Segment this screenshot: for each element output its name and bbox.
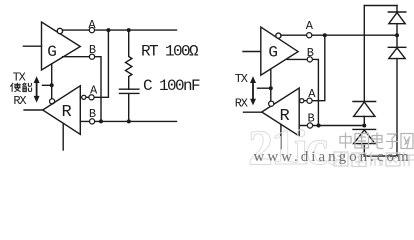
svg-text:B: B (89, 107, 96, 121)
wire: D4 anode to bottom rail (363, 144, 365, 156)
receiver R1 input bubble (82, 95, 86, 99)
watermark CJK row2 ghost (334, 152, 414, 167)
wire: D2 anode to bottom rail (396, 59, 398, 156)
svg-text:TX: TX (13, 70, 26, 84)
terminal circle B receiver 2 (307, 123, 312, 128)
wire: A line right circuit (281, 34, 397, 36)
node junction enable (50, 83, 54, 87)
node junction on A bus (106, 28, 110, 32)
wire: R2 bottom stub (280, 124, 282, 148)
svg-text:www.diangon.com: www.diangon.com (254, 149, 412, 165)
wire: A bus top line (63, 29, 177, 31)
svg-text:B: B (307, 46, 314, 60)
svg-text:C 100nF: C 100nF (143, 77, 200, 95)
diode D2 (388, 46, 406, 48)
op-amp G2 driver triangle (261, 27, 298, 75)
label 使能 (enable) drawn as paths (10, 83, 31, 92)
wire: D3 anode to B node (363, 116, 365, 125)
node junction B bus / driver B 2 (317, 124, 321, 128)
wire: R1 bottom stub (62, 123, 64, 150)
inversion bubble on G2 top edge (276, 33, 281, 38)
TX/RX direction double arrow left (34, 76, 40, 102)
receiver R1 enable bubble (50, 99, 55, 104)
capacitor C plates (120, 89, 139, 121)
node junction B bus / driver B (99, 119, 103, 123)
terminal circle A driver 2 (307, 33, 312, 38)
svg-text:RX: RX (13, 94, 26, 108)
receiver R2 input bubble (300, 99, 304, 103)
terminal circle B driver 2 (307, 57, 312, 62)
wire: left column vertical (363, 6, 365, 102)
terminal circle A receiver 2 (307, 98, 312, 103)
wire: G driver input (TXD) (23, 45, 41, 47)
wire: B bus bottom line (80, 120, 176, 122)
wire: G driver input (243, 51, 261, 53)
terminal circle A (receiver input A) (89, 95, 94, 100)
wire: vertical A feed down to receiver input (80, 30, 108, 97)
terminal circle A (driver output A) (89, 28, 94, 33)
node junction RT top (127, 28, 131, 32)
op-amp R1 receiver triangle (43, 86, 81, 135)
watermark CJK row1 中国电子网 (340, 133, 413, 149)
svg-text:RT 100Ω: RT 100Ω (141, 43, 199, 61)
TX/RX direction double arrow right (250, 76, 256, 105)
wire: enable connector 2 (258, 87, 271, 89)
wire: G1 enable pin down (51, 64, 53, 99)
node junction enable 2 (269, 86, 273, 90)
diode D3 (cathode bar + triangle) (353, 101, 376, 103)
svg-text:G: G (268, 44, 278, 62)
op-amp G1 driver triangle (42, 22, 81, 70)
svg-text:G: G (47, 43, 57, 61)
terminal circle B (receiver input B) (90, 119, 95, 124)
inversion bubble on G1 top edge (57, 28, 62, 33)
wire: bottom rail (364, 155, 397, 157)
resistor RT zigzag (126, 30, 132, 89)
op-amp R2 receiver triangle (262, 88, 300, 136)
wire: right column top (396, 6, 398, 13)
svg-text:B: B (89, 43, 96, 57)
wire: B output of G2 (287, 59, 318, 125)
diode D1 (388, 11, 406, 13)
wire: A feed down to receiver 2 (299, 35, 325, 101)
node junction A / diode column (395, 33, 399, 37)
svg-text:TX: TX (235, 72, 248, 86)
wire: R1 output (RXD) (24, 109, 43, 111)
node junction A line (323, 33, 327, 37)
wire: enable connector (43, 84, 52, 86)
wire: top supply rail (364, 5, 397, 7)
terminal circle B (driver output B) (89, 54, 94, 59)
svg-text:R: R (62, 103, 72, 122)
wire: B output of G1 (63, 57, 101, 122)
node junction B bus / capacitor (127, 119, 131, 123)
diode D4 (353, 128, 376, 130)
wire: D1 anode to A node (396, 24, 398, 48)
wire: B bus right circuit (299, 125, 364, 127)
receiver R2 enable bubble (269, 101, 274, 106)
svg-text:RX: RX (235, 96, 248, 110)
wire: R2 output (244, 111, 262, 113)
node junction B / diode column (362, 124, 366, 128)
wire: G2 enable pin down (270, 69, 272, 101)
